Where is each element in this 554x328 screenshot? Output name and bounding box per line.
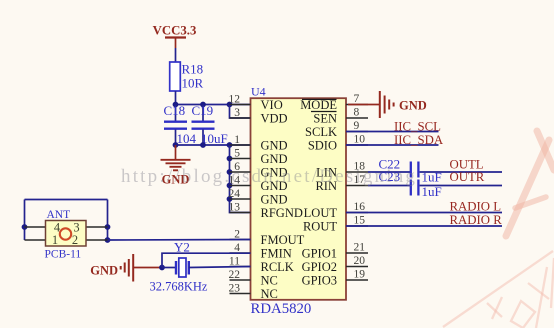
svg-text:32.768KHz: 32.768KHz	[150, 280, 208, 294]
U4 left pin names	[261, 98, 305, 301]
svg-text:LOUT: LOUT	[304, 206, 338, 220]
svg-text:SDIO: SDIO	[308, 139, 337, 153]
svg-text:RDA5820: RDA5820	[251, 301, 312, 317]
IC U4 RDA5820 body	[251, 85, 347, 318]
wire R18 to VDD rail	[175, 91, 177, 105]
capacitor C22	[379, 157, 442, 185]
junction R18/C18	[173, 102, 179, 108]
svg-text:SEN: SEN	[313, 112, 337, 126]
svg-text:FMOUT: FMOUT	[261, 233, 305, 247]
svg-text:RFGND: RFGND	[261, 206, 303, 220]
capacitor C23	[379, 169, 442, 199]
svg-text:23: 23	[229, 283, 241, 295]
junction GND bus top	[227, 142, 233, 148]
svg-text:13: 13	[229, 202, 241, 214]
svg-text:VDD: VDD	[261, 112, 288, 126]
wire GND rail caps to pin 1	[176, 144, 251, 146]
svg-text:3: 3	[234, 107, 240, 119]
power ground GND at pin 7	[380, 91, 427, 118]
svg-text:PCB-11: PCB-11	[45, 249, 82, 261]
junction Y2/FMIN	[159, 265, 165, 271]
svg-text:R18: R18	[182, 62, 204, 77]
svg-text:22: 22	[229, 269, 241, 281]
MODE overline	[302, 98, 337, 100]
wire ANT pin3	[86, 226, 108, 228]
svg-text:GPIO3: GPIO3	[302, 274, 337, 288]
svg-text:U4: U4	[251, 85, 266, 99]
svg-text:5: 5	[234, 148, 240, 160]
wire net IIC_SDA	[346, 144, 439, 146]
wire ANT loop top	[25, 199, 108, 201]
svg-text:ROUT: ROUT	[303, 220, 337, 234]
svg-text:RADIO R: RADIO R	[450, 213, 503, 227]
junction GND bus pin6	[227, 169, 233, 175]
svg-text:21: 21	[354, 242, 366, 254]
svg-text:FMIN: FMIN	[261, 247, 292, 261]
wire pin 17 to C23	[368, 185, 410, 187]
wire Y2 to RCLK pin 11	[189, 267, 251, 268]
wire ANT loop right	[107, 200, 109, 241]
capacitor C18	[164, 103, 197, 146]
svg-text:104: 104	[177, 131, 197, 146]
SEN overline	[311, 111, 337, 113]
svg-text:20: 20	[354, 255, 366, 267]
U4 right pin names	[300, 98, 337, 288]
junction VDD branch	[227, 102, 233, 108]
svg-text:VIO: VIO	[261, 98, 283, 112]
svg-text:GPIO2: GPIO2	[302, 260, 337, 274]
wire branch to FMIN pin 4	[162, 253, 251, 267]
wire branch to pin 3 VDD	[230, 105, 251, 119]
svg-text:ANT: ANT	[47, 209, 71, 221]
svg-text:GPIO1: GPIO1	[302, 247, 337, 261]
U4 right pin stubs	[346, 105, 368, 281]
junction ANT right pin2	[105, 237, 111, 243]
ground symbol (earth) below C18	[161, 145, 191, 187]
wire ANT pin2	[86, 239, 108, 241]
svg-text:SCLK: SCLK	[305, 125, 337, 139]
svg-text:VCC3.3: VCC3.3	[153, 24, 197, 38]
wire ANT pin1	[25, 239, 46, 241]
svg-text:Y2: Y2	[174, 240, 190, 255]
connector ANT PCB-11	[45, 209, 87, 261]
svg-text:1: 1	[52, 233, 58, 247]
svg-text:1: 1	[234, 134, 240, 146]
junction ANT right pin3	[105, 224, 111, 230]
wire net RADIO_R	[346, 225, 502, 227]
svg-text:IIC_SDA: IIC_SDA	[394, 133, 444, 147]
svg-text:4: 4	[234, 242, 240, 254]
svg-text:GND: GND	[261, 139, 288, 153]
wire VDD rail to pin 12	[176, 104, 251, 106]
svg-text:15: 15	[354, 215, 366, 227]
U4 left pin numbers	[229, 94, 241, 295]
power ground GND at Y2	[90, 254, 133, 282]
wire C23 to OUTR	[420, 185, 502, 187]
svg-text:7: 7	[354, 93, 360, 105]
svg-text:19: 19	[354, 269, 366, 281]
svg-text:8: 8	[354, 107, 360, 119]
svg-text:C19: C19	[192, 103, 214, 118]
wire GND to Y2	[133, 267, 162, 269]
wire pin 18 to C22	[368, 171, 410, 173]
svg-text:GND: GND	[261, 193, 288, 207]
wire pin 7 to GND	[348, 104, 380, 106]
resistor R18	[170, 62, 204, 92]
svg-text:RCLK: RCLK	[261, 260, 294, 274]
svg-text:9: 9	[354, 120, 360, 132]
svg-text:C18: C18	[164, 103, 186, 118]
svg-text:RADIO L: RADIO L	[450, 200, 502, 214]
svg-text:12: 12	[229, 94, 241, 106]
svg-text:GND: GND	[399, 99, 427, 113]
crystal Y2	[150, 240, 208, 294]
junction GND bus pin24	[227, 196, 233, 202]
wire ANT pin4	[25, 226, 46, 228]
svg-text:GND: GND	[90, 264, 118, 278]
svg-text:10R: 10R	[182, 76, 204, 91]
wire ANT to FMOUT pin 2	[108, 239, 251, 242]
svg-text:2: 2	[72, 233, 78, 247]
svg-text:OUTR: OUTR	[450, 170, 485, 184]
capacitor C19	[192, 103, 228, 146]
junction ANT left	[22, 224, 28, 230]
wire Y2 left	[162, 267, 176, 269]
junction C18 bottom	[173, 142, 179, 148]
U4 right pin numbers	[354, 93, 366, 281]
svg-text:MODE: MODE	[300, 98, 337, 112]
svg-text:10: 10	[354, 134, 366, 146]
svg-text:11: 11	[229, 256, 240, 268]
wire GND bus pins 1,5,6,14,24,13	[230, 145, 251, 213]
junction C19 bottom	[200, 142, 206, 148]
junction GND bus pin14	[227, 183, 233, 189]
power flag VCC3.3	[153, 24, 197, 49]
svg-text:IIC_SCL: IIC_SCL	[394, 120, 441, 134]
wire ANT loop left	[24, 200, 26, 241]
wire C22 to OUTL	[420, 171, 502, 173]
svg-text:24: 24	[229, 188, 241, 200]
svg-text:GND: GND	[261, 152, 288, 166]
U4 left pin stubs	[230, 105, 251, 294]
junction GND bus pin5	[227, 156, 233, 162]
wire net IIC_SCL	[346, 131, 439, 133]
svg-text:16: 16	[354, 201, 366, 213]
wire VCC3.3 to R18	[175, 48, 177, 62]
svg-text:NC: NC	[261, 274, 278, 288]
svg-text:http:​//blog.csdn.net/Designin: http:​//blog.csdn.net/Designing	[121, 166, 417, 187]
junction C19 top	[200, 102, 206, 108]
svg-text:NC: NC	[261, 287, 278, 301]
wire net RADIO_L	[346, 212, 502, 214]
